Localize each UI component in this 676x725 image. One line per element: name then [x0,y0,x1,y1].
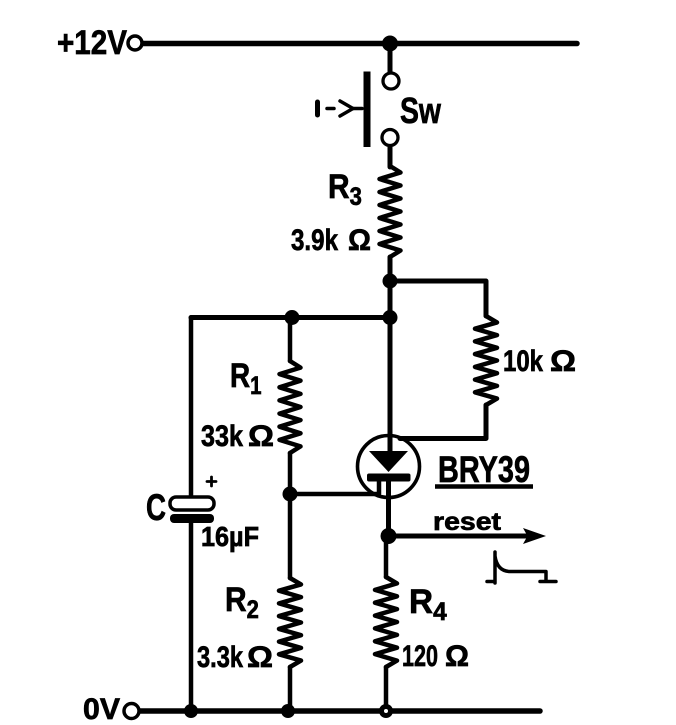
svg-text:Sw: Sw [400,90,442,131]
svg-text:reset: reset [433,508,502,536]
svg-text:33k: 33k [201,420,243,453]
svg-text:3.3k: 3.3k [197,641,243,674]
svg-text:10k: 10k [503,345,543,378]
svg-text:0V: 0V [83,693,120,725]
svg-text:+12V: +12V [57,24,127,62]
svg-text:Ω: Ω [550,345,576,378]
svg-text:Ω: Ω [348,224,371,257]
svg-text:C: C [146,487,166,528]
svg-text:Ω: Ω [248,420,274,453]
svg-text:120: 120 [402,640,438,673]
svg-text:3.9k: 3.9k [291,224,338,257]
svg-text:16µF: 16µF [201,521,259,552]
svg-text:Ω: Ω [445,640,469,673]
svg-text:BRY39: BRY39 [438,449,530,490]
svg-text:Ω: Ω [247,641,273,674]
